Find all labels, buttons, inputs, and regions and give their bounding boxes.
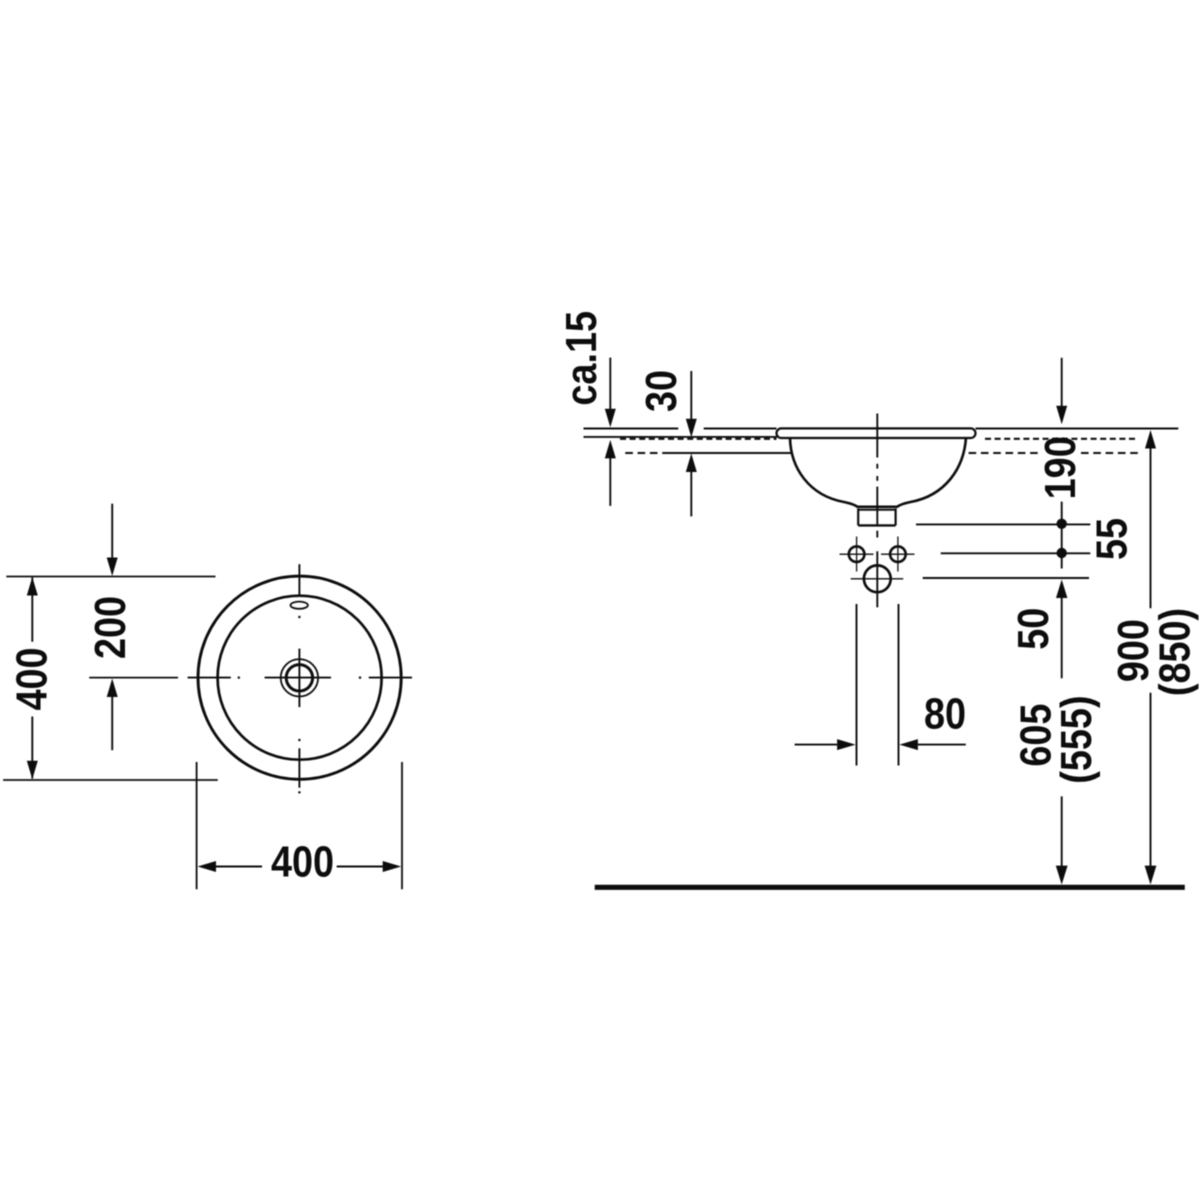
svg-text:(555): (555) <box>1051 695 1100 783</box>
svg-text:ca.15: ca.15 <box>556 311 605 406</box>
svg-text:55: 55 <box>1087 518 1136 560</box>
svg-text:30: 30 <box>636 370 685 412</box>
svg-text:400: 400 <box>7 647 56 710</box>
svg-text:400: 400 <box>271 837 334 886</box>
svg-text:80: 80 <box>924 689 966 738</box>
svg-text:(850): (850) <box>1150 608 1199 696</box>
svg-text:190: 190 <box>1035 436 1084 499</box>
svg-text:200: 200 <box>85 596 134 659</box>
svg-text:50: 50 <box>1008 608 1057 650</box>
